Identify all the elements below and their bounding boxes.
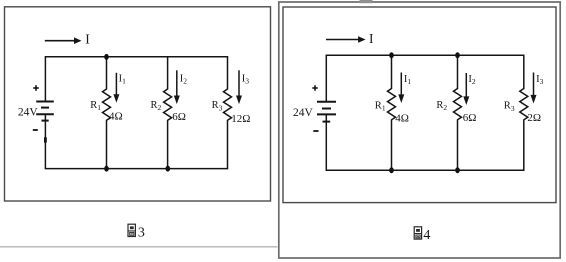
- wire: bottom rail (right figure): [326, 169, 525, 171]
- svg-text:6Ω: 6Ω: [463, 112, 477, 124]
- svg-text:I: I: [85, 32, 90, 47]
- node: top rail / branch 2 junction (right figure): [455, 52, 460, 58]
- wire: branch 2 lower lead (left figure): [167, 120, 169, 169]
- svg-text:3: 3: [138, 226, 145, 241]
- wire: left rail upper segment to battery (left figure): [44, 57, 46, 101]
- svg-text:R2: R2: [436, 100, 447, 112]
- current arrow I1 (right figure): [398, 73, 404, 104]
- wire: left rail upper segment to battery (right figure): [325, 55, 327, 101]
- wire: left rail lower segment from battery (left figure): [44, 114, 46, 168]
- plus polarity mark (left battery): [33, 85, 39, 91]
- wire: right rail lower lead (left figure): [227, 120, 229, 169]
- resistor R3 2ohm zigzag (right figure): [520, 89, 528, 120]
- wire: thickened joint blob on left rail (left figure): [44, 137, 47, 142]
- svg-text:4Ω: 4Ω: [395, 112, 409, 124]
- wire: branch 2 upper lead (right figure): [457, 55, 459, 89]
- minus polarity mark (left battery): [33, 129, 38, 131]
- node: top rail / branch 1 junction (left figure): [104, 54, 109, 60]
- svg-text:6Ω: 6Ω: [172, 111, 186, 123]
- node: bottom rail / branch 1 junction (right figure): [389, 167, 394, 173]
- wire: right rail lower lead (right figure): [523, 119, 525, 170]
- svg-text:4: 4: [423, 228, 430, 243]
- wire: top rail (left figure): [45, 56, 229, 58]
- svg-text:R2: R2: [151, 100, 162, 112]
- svg-text:R1: R1: [90, 100, 101, 112]
- svg-text:I: I: [369, 31, 374, 46]
- battery 24V (right figure): [317, 102, 336, 122]
- wire: branch 2 upper lead (left figure): [167, 57, 169, 90]
- node: bottom rail / branch 1 junction (left figure): [104, 166, 109, 172]
- svg-text:I3: I3: [536, 74, 544, 86]
- current arrow I (top, left figure): [45, 37, 82, 44]
- wire: top rail (right figure): [326, 54, 525, 56]
- wire: bottom rail (left figure): [45, 168, 229, 170]
- current arrow I2 (right figure): [463, 73, 469, 105]
- resistor R3 12ohm zigzag (left figure): [224, 89, 232, 120]
- svg-text:I1: I1: [119, 74, 127, 86]
- svg-text:24V: 24V: [293, 107, 314, 119]
- resistor R1 4ohm zigzag (right figure): [388, 89, 396, 120]
- current arrow I3 (left figure): [236, 70, 242, 104]
- svg-text:I2: I2: [468, 74, 476, 86]
- wire: branch 2 lower lead (right figure): [457, 119, 459, 170]
- wire: branch 1 lower lead (right figure): [391, 119, 393, 170]
- plus polarity mark (right battery): [312, 85, 317, 90]
- resistor R2 6ohm zigzag (right figure): [454, 89, 462, 120]
- minus polarity mark (right battery): [313, 130, 318, 132]
- svg-text:R3: R3: [504, 101, 515, 113]
- wire: right rail upper lead (left figure): [227, 57, 229, 90]
- svg-text:R3: R3: [212, 100, 223, 112]
- battery 24V (left figure): [36, 102, 54, 121]
- svg-text:I2: I2: [180, 73, 188, 85]
- caption: figure character (left figure): [128, 224, 135, 236]
- svg-text:24V: 24V: [18, 107, 39, 119]
- svg-text:12Ω: 12Ω: [231, 113, 250, 125]
- wire: branch 1 upper lead (right figure): [391, 55, 393, 89]
- wire: branch 1 lower lead (left figure): [106, 120, 108, 169]
- node: bottom rail / branch 2 junction (right figure): [455, 167, 460, 173]
- node: bottom rail / branch 2 junction (left figure): [166, 166, 171, 172]
- wire: left rail lower segment from battery (right figure): [325, 114, 327, 170]
- resistor R2 6ohm zigzag (left figure): [164, 89, 172, 120]
- wire: branch 1 upper lead (left figure): [106, 57, 108, 90]
- wire: right rail upper lead (right figure): [523, 55, 525, 89]
- node: top rail / branch 1 junction (right figure): [389, 52, 394, 58]
- current arrow I3 (right figure): [531, 73, 537, 104]
- current arrow I1 (left figure): [113, 73, 119, 103]
- svg-text:4Ω: 4Ω: [109, 111, 123, 123]
- svg-text:I1: I1: [404, 74, 412, 86]
- svg-text:2Ω: 2Ω: [527, 112, 541, 124]
- current arrow I (top, right figure): [326, 36, 366, 43]
- svg-text:R1: R1: [375, 100, 386, 112]
- caption: figure character (right figure): [414, 227, 421, 239]
- current arrow I2 (left figure): [174, 70, 180, 104]
- resistor R1 4ohm zigzag (left figure): [103, 89, 111, 120]
- svg-text:I3: I3: [242, 73, 250, 85]
